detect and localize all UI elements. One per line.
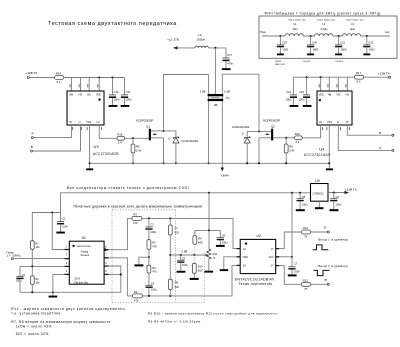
svg-text:1: 1: [66, 245, 68, 248]
wire input to pin2: [13, 258, 69, 260]
svg-text:3µН: 3µН: [350, 27, 355, 31]
svg-text:D: D: [242, 131, 244, 135]
svg-text:2.9В: 2.9В: [182, 249, 188, 253]
wire Q1 source down: [163, 138, 165, 164]
svg-text:R6: R6: [152, 266, 156, 270]
svg-text:75: 75: [304, 235, 307, 239]
capacitor C31: [338, 35, 340, 37]
node output arrow to LPF: [221, 168, 224, 172]
svg-text:L2: L2: [322, 22, 325, 26]
wire to TVS diode D1: [164, 131, 176, 137]
svg-text:100p: 100p: [151, 288, 157, 292]
svg-text:'В': 'В': [324, 278, 327, 282]
resistor R1: [32, 213, 34, 241]
wire ground rail power stage: [90, 162, 330, 164]
ground: [277, 54, 284, 56]
svg-text:Ант: Ант: [385, 30, 390, 34]
wire LO to R16: [99, 125, 117, 138]
svg-text:C14: C14: [286, 90, 291, 94]
svg-text:180Х5: 180Х5: [275, 61, 282, 63]
svg-text:470n: 470n: [227, 62, 233, 66]
svg-text:C0G/Х5: C0G/Х5: [335, 61, 344, 63]
svg-text:'А': 'А': [324, 226, 327, 230]
svg-text:C30: C30: [312, 40, 317, 44]
node junction VDD: [98, 76, 100, 78]
svg-text:7: 7: [105, 254, 107, 257]
svg-text:GC4D1012064: GC4D1012064: [182, 140, 199, 143]
ground: [303, 105, 312, 107]
wire Q2 source down: [258, 138, 260, 164]
svg-text:Texas Instruments: Texas Instruments: [239, 282, 273, 286]
svg-text:2.4: 2.4: [118, 141, 122, 145]
svg-text:Выход 1 (к драйверу): Выход 1 (к драйверу): [318, 238, 348, 242]
svg-text:HB: HB: [70, 94, 74, 97]
ground: [296, 209, 305, 211]
capacitor C7: [291, 257, 293, 267]
wire 1Y to R12: [279, 232, 301, 249]
wire GND pin to ground: [224, 257, 237, 269]
capacitor C8: [299, 193, 301, 199]
resistor R16: [117, 136, 125, 140]
ground U3: [86, 168, 93, 170]
svg-text:2.4к: 2.4к: [289, 148, 295, 152]
svg-text:R7: R7: [175, 226, 179, 230]
svg-text:+12В TX: +12В TX: [345, 187, 357, 191]
svg-text:NCEP02625F: NCEP02625F: [263, 119, 281, 123]
ground: [109, 105, 118, 107]
svg-text:Q1: Q1: [146, 124, 150, 128]
wire U3 top pin risers: [71, 78, 99, 92]
svg-text:1800: 1800: [313, 47, 319, 51]
svg-text:C11: C11: [126, 90, 131, 94]
svg-text:820: 820: [175, 285, 180, 289]
svg-text:'A': 'A': [31, 132, 34, 136]
svg-text:'B': 'B': [30, 145, 33, 149]
svg-text:100n: 100n: [336, 202, 342, 206]
svg-text:UCC27301ADR: UCC27301ADR: [304, 153, 331, 157]
svg-text:200µН: 200µН: [197, 37, 205, 41]
wire R19 to Q2 gate: [273, 137, 294, 139]
svg-text:1.5В: 1.5В: [200, 90, 206, 94]
svg-text:C17: C17: [227, 53, 232, 57]
svg-text:3: 3: [66, 262, 68, 265]
svg-text:'А': 'А': [379, 146, 382, 150]
svg-text:D: D: [169, 136, 171, 140]
svg-text:470: 470: [134, 299, 139, 303]
svg-text:2В: 2В: [214, 103, 218, 107]
svg-text:HI: HI: [70, 121, 73, 124]
pin marks U4 bottom: [322, 127, 350, 130]
svg-text:Пвд.: Пвд.: [260, 30, 266, 34]
wire pin7 riser to R4 row: [109, 258, 128, 296]
svg-text:Т106-2 100вит. 1мм: Т106-2 100вит. 1мм: [317, 19, 336, 21]
capacitor C5: [180, 255, 182, 260]
svg-text:R10: R10: [198, 265, 203, 269]
ground: [216, 245, 225, 247]
capacitor C29: [279, 35, 281, 37]
wire to A out: [311, 231, 328, 233]
resistor R19: [295, 136, 303, 140]
svg-text:т.е. установка DeadTime: т.е. установка DeadTime: [11, 312, 61, 316]
resistor R3: [132, 216, 142, 220]
svg-text:100p: 100p: [150, 230, 156, 234]
svg-text:1к: 1к: [213, 255, 216, 259]
resistor R10: [193, 255, 195, 263]
svg-text:NCEP02625F: NCEP02625F: [136, 118, 154, 122]
svg-text:HO: HO: [337, 94, 341, 97]
ground: [335, 54, 342, 56]
transformer Tr1: [214, 48, 216, 94]
svg-text:VDD: VDD: [319, 94, 324, 97]
svg-text:100n: 100n: [294, 269, 300, 273]
ground: [363, 54, 370, 56]
svg-text:U4: U4: [319, 146, 325, 151]
capacitor C15: [306, 77, 308, 95]
capacitor C9: [333, 193, 335, 199]
svg-text:U5: U5: [315, 179, 319, 183]
resistor R12: [302, 230, 311, 234]
svg-text:Devices: Devices: [81, 254, 90, 257]
resistor R2: [31, 266, 33, 276]
svg-text:8: 8: [105, 245, 107, 248]
resistor R5 470: [148, 230, 150, 240]
ground: [56, 232, 65, 234]
svg-text:U3: U3: [94, 144, 100, 149]
svg-text:C10: C10: [114, 90, 119, 94]
resistor R4: [132, 294, 142, 298]
wire +5 riser to R9 node: [208, 193, 210, 231]
ground: [222, 68, 231, 70]
svg-text:R9,R10 - замена подстроечника: R9,R10 - замена подстроечника R11 после …: [148, 312, 277, 316]
svg-text:R11 - ширина скважности двух к: R11 - ширина скважности двух каналов одн…: [11, 307, 126, 311]
ground: [121, 105, 130, 107]
wire filter main line: [262, 35, 390, 37]
capacitor C30: [310, 35, 312, 37]
svg-text:820: 820: [175, 231, 180, 235]
svg-text:LI: LI: [79, 121, 81, 124]
svg-text:LO: LO: [97, 121, 100, 124]
svg-text:C2: C2: [62, 217, 66, 221]
svg-text:C9: C9: [336, 195, 340, 199]
svg-text:R12: R12: [303, 226, 308, 230]
svg-text:R14: R14: [56, 71, 62, 75]
svg-text:Т106-2 100вит. 1мм: Т106-2 100вит. 1мм: [345, 19, 364, 21]
svg-text:100n: 100n: [302, 202, 308, 206]
svg-text:100n: 100n: [114, 98, 120, 102]
capacitor C11: [124, 78, 126, 95]
op-amp U3 driver IC body: [67, 91, 104, 125]
svg-text:R3-R6 467Ом +/- 0.1% 25ррм: R3-R6 467Ом +/- 0.1% 25ррм: [148, 320, 201, 324]
svg-text:3.3µН: 3.3µН: [320, 27, 327, 31]
svg-text:470: 470: [152, 245, 157, 249]
svg-text:442*: 442*: [198, 240, 203, 244]
svg-text:2: 2: [66, 254, 68, 257]
svg-text:820 = около 32%: 820 = около 32%: [16, 332, 49, 336]
capacitor C32: [366, 35, 368, 37]
wire Q1 drain up and over to transformer: [162, 130, 164, 132]
wire +12 rail right: [293, 76, 354, 78]
svg-text:1.5В: 1.5В: [224, 90, 230, 94]
wire VSS to ground rail: [89, 125, 91, 168]
capacitor C1: [19, 266, 21, 276]
svg-text:+12В TX: +12В TX: [378, 71, 390, 75]
resistor R6: [285, 138, 287, 144]
wire U5 input from +12: [328, 192, 345, 194]
dashed red zone box: [112, 210, 204, 303]
svg-text:5: 5: [105, 270, 107, 273]
ground: [330, 209, 339, 211]
svg-text:Печатные дорожки в красной зон: Печатные дорожки в красной зоне делать м…: [74, 205, 203, 209]
wire U4 top pin risers: [321, 77, 348, 91]
svg-text:2.4: 2.4: [357, 80, 361, 84]
svg-text:2.4: 2.4: [295, 140, 299, 144]
svg-text:U2: U2: [257, 234, 261, 238]
wire R9 top node row: [195, 229, 221, 231]
svg-text:562*: 562*: [198, 269, 203, 273]
svg-text:Tr1: Tr1: [226, 96, 231, 100]
svg-text:1кОм = около 43%: 1кОм = около 43%: [16, 325, 52, 329]
wire: [364, 76, 389, 78]
ground: [288, 274, 297, 276]
svg-text:4: 4: [66, 270, 68, 273]
wire pin4 to gnd rail: [53, 274, 65, 292]
svg-text:+12В TX: +12В TX: [26, 71, 38, 75]
svg-text:R7, R8 влияют на минимальную ш: R7, R8 влияют на минимальную ширину сква…: [11, 320, 111, 324]
svg-text:1000: 1000: [282, 47, 288, 51]
pin labels (rotated tiny): [70, 84, 99, 87]
svg-text:C32: C32: [368, 40, 373, 44]
ground symbol: [52, 292, 54, 295]
wire bias node to pin3: [20, 265, 69, 267]
svg-text:100n: 100n: [126, 98, 132, 102]
svg-text:100n: 100n: [182, 263, 188, 267]
wire L4 to center tap: [208, 47, 226, 49]
svg-text:R8: R8: [175, 281, 179, 285]
svg-text:Q2: Q2: [271, 125, 275, 129]
svg-text:R4: R4: [134, 290, 138, 294]
wire VCC row to riser: [279, 256, 292, 258]
svg-text:2Y: 2Y: [271, 265, 274, 268]
svg-text:R5: R5: [152, 241, 156, 245]
svg-text:Все конденсаторы ставить тольк: Все конденсаторы ставить только с диэлек…: [67, 186, 189, 190]
ground mid tap: [139, 257, 149, 264]
svg-text:ФНЧ Чебышева 7 порядка для 3МГ: ФНЧ Чебышева 7 порядка для 3МГц (расчет …: [265, 11, 381, 15]
svg-text:L1: L1: [294, 22, 297, 26]
svg-text:C8: C8: [302, 195, 306, 199]
svg-text:1A: 1A: [243, 248, 246, 251]
trimmer R11: [208, 230, 210, 249]
svg-text:1800: 1800: [341, 47, 347, 51]
svg-text:75: 75: [304, 287, 307, 291]
wire R4 row: [127, 265, 240, 296]
svg-text:L4: L4: [198, 33, 202, 37]
svg-text:1.7 - 3.9МГц: 1.7 - 3.9МГц: [7, 254, 22, 257]
svg-text:C3: C3: [150, 223, 154, 227]
node +12V TX left port: [27, 77, 29, 79]
svg-text:HS: HS: [87, 94, 91, 97]
capacitor C17: [225, 48, 227, 58]
wire to B out: [311, 283, 328, 285]
LPF border box: [259, 16, 397, 58]
ground U4: [326, 168, 333, 170]
svg-text:L3: L3: [351, 22, 354, 26]
svg-text:VDD: VDD: [96, 94, 101, 97]
ground: [290, 105, 299, 107]
wire bottom ground rail: [20, 274, 121, 292]
node +12V TX right port: [389, 76, 391, 78]
wire pin1 to +5: [52, 213, 64, 250]
svg-text:R17: R17: [356, 71, 362, 75]
svg-text:C29: C29: [282, 40, 287, 44]
svg-text:R11: R11: [213, 252, 218, 256]
svg-text:Тестовая схема двухтактного пе: Тестовая схема двухтактного передатчика: [48, 21, 177, 27]
svg-text:2.4: 2.4: [57, 80, 61, 84]
capacitor C6: [219, 230, 221, 237]
svg-text:R3: R3: [134, 213, 138, 217]
node output B: [347, 125, 392, 135]
svg-text:1000: 1000: [369, 47, 375, 51]
resistor R17: [355, 75, 364, 79]
capacitor C10: [112, 78, 114, 95]
svg-text:U1: U1: [82, 236, 86, 240]
wire A to pin HI: [33, 125, 71, 138]
svg-text:GND: GND: [243, 256, 249, 259]
svg-text:R16: R16: [117, 133, 123, 137]
svg-text:100n: 100n: [222, 240, 228, 244]
svg-text:'В': 'В': [379, 131, 382, 135]
node junction C10: [111, 76, 113, 78]
svg-text:VCC: VCC: [269, 256, 274, 259]
capacitor C4: [148, 273, 150, 285]
resistor R7: [169, 218, 171, 225]
op-amp U4 driver IC body: [317, 91, 352, 125]
wire Q2 drain up and over to transformer: [258, 130, 260, 132]
wire VSS to ground rail: [328, 125, 330, 168]
capacitor C3: [148, 218, 150, 227]
wire VCC riser from +5 rail: [291, 193, 293, 257]
svg-text:2.4к: 2.4к: [136, 148, 142, 152]
svg-text:2A: 2A: [243, 265, 246, 268]
svg-text:R19: R19: [295, 132, 301, 136]
svg-text:Fall time 9ns: Fall time 9ns: [74, 281, 88, 284]
svg-text:GC4D1012064: GC4D1012064: [232, 125, 250, 129]
svg-text:C0G/Х5: C0G/Х5: [303, 61, 312, 63]
svg-text:R2: R2: [35, 277, 39, 281]
svg-text:470: 470: [152, 270, 157, 274]
svg-text:100n: 100n: [286, 98, 292, 102]
resistor R13: [302, 282, 311, 286]
svg-text:C7: C7: [294, 261, 298, 265]
svg-text:VSS: VSS: [86, 121, 91, 124]
ground: [307, 54, 314, 56]
node output A: [338, 125, 392, 150]
svg-text:L7805CV: L7805CV: [313, 191, 324, 195]
svg-text:SN74LVC2G14DBVR: SN74LVC2G14DBVR: [235, 277, 275, 281]
svg-text:470: 470: [133, 221, 138, 225]
svg-text:HO: HO: [79, 94, 83, 97]
svg-text:HI: HI: [346, 121, 349, 124]
pin stubs U2: [237, 249, 280, 266]
svg-text:R9: R9: [198, 237, 202, 241]
svg-text:LI: LI: [337, 121, 339, 124]
wire: [29, 77, 54, 79]
svg-text:SO-8: SO-8: [74, 277, 80, 280]
resistor R9: [194, 230, 196, 235]
svg-text:15к: 15к: [35, 280, 40, 284]
svg-text:MAX5913ESA: MAX5913ESA: [77, 245, 92, 248]
wire R16 to Q1 gate: [125, 137, 149, 139]
svg-text:VSS: VSS: [327, 121, 332, 124]
capacitor C2: [60, 213, 62, 222]
svg-text:Выход 2 (к драйверу): Выход 2 (к драйверу): [318, 264, 348, 268]
resistor R6 470: [148, 257, 150, 265]
wire +12 rail to C11: [64, 77, 125, 79]
capacitor C14: [292, 77, 294, 95]
svg-text:HB: HB: [328, 94, 332, 97]
resistor R5: [132, 138, 134, 144]
svg-text:R1: R1: [35, 242, 39, 246]
svg-text:6: 6: [105, 262, 107, 265]
resistor R8: [168, 279, 172, 290]
ground: [177, 271, 186, 273]
svg-text:3µН: 3µН: [293, 27, 298, 31]
svg-text:Т106-2 100вит. 1мм: Т106-2 100вит. 1мм: [288, 19, 307, 21]
wire pin6 pin5 join: [109, 266, 121, 274]
wire +5V rail: [35, 193, 311, 213]
svg-text:C31: C31: [340, 40, 345, 44]
svg-text:SMD 1812: SMD 1812: [275, 64, 286, 66]
svg-text:100n: 100n: [299, 98, 305, 102]
svg-text:LO: LO: [319, 121, 322, 124]
svg-text:HS: HS: [346, 94, 350, 97]
wire B to pin LI: [33, 125, 81, 151]
svg-text:+12..57В: +12..57В: [167, 38, 178, 42]
svg-text:C15: C15: [299, 90, 304, 94]
pin marks U3 bottom: [72, 127, 102, 130]
svg-text:100n: 100n: [16, 279, 22, 283]
svg-text:100n: 100n: [62, 224, 68, 228]
svg-text:к ФНЧ: к ФНЧ: [221, 173, 229, 177]
svg-text:15к: 15к: [35, 245, 40, 249]
wire to TVS diode D2: [247, 131, 258, 137]
pin stubs U1: [65, 250, 109, 275]
resistor R14: [55, 76, 64, 80]
ground: [190, 278, 199, 280]
svg-text:1Y: 1Y: [271, 248, 274, 251]
wire 2Y to R13: [279, 266, 301, 285]
ground: [204, 271, 213, 273]
svg-text:C6: C6: [222, 234, 226, 238]
wire pin8 riser to R3 row: [104, 248, 107, 251]
svg-text:UCC27301ADR: UCC27301ADR: [93, 152, 119, 156]
wire R3 row: [127, 218, 240, 248]
wire LO to R19: [302, 125, 320, 138]
svg-text:R13: R13: [303, 279, 308, 283]
ground U5: [318, 201, 320, 207]
